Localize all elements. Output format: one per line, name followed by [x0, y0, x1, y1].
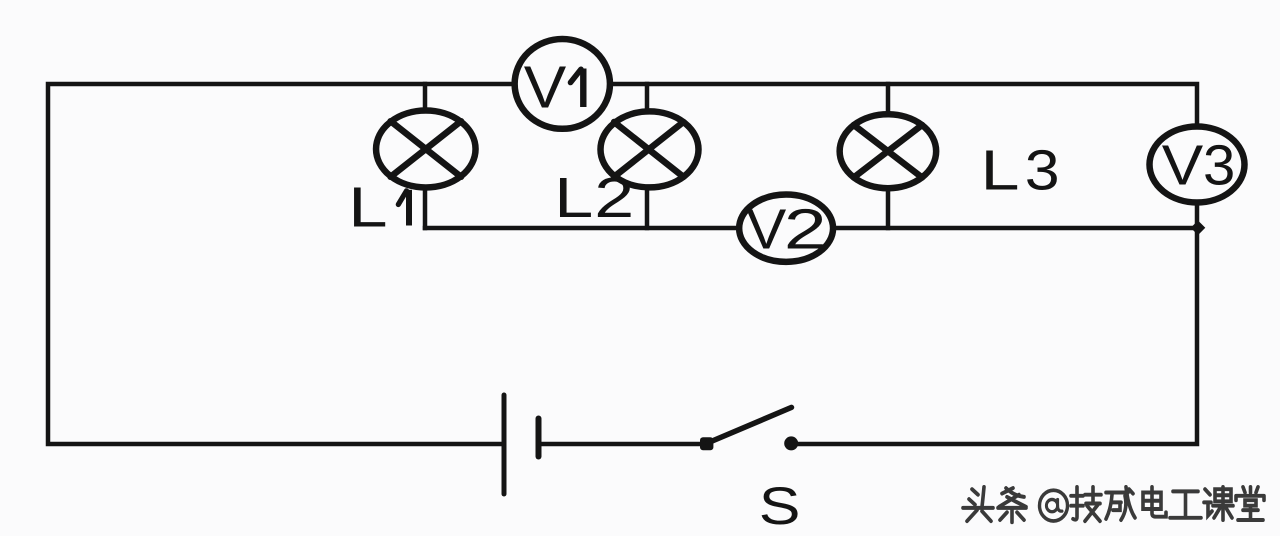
- battery long plate (+): [502, 395, 507, 494]
- label L3: [981, 138, 1060, 202]
- switch S left contact: [700, 437, 713, 450]
- wire middle bus: [425, 226, 1197, 231]
- char 头: [963, 487, 993, 521]
- char 工: [1170, 491, 1201, 517]
- voltmeter V1 body: [515, 39, 610, 129]
- char 课: [1204, 487, 1233, 520]
- lamp L1: [376, 111, 476, 188]
- char @: [1040, 490, 1068, 521]
- battery short plate (-): [536, 419, 542, 457]
- svg-text:3: 3: [1203, 134, 1235, 197]
- wire L2 branch vertical: [645, 84, 650, 228]
- voltmeter V2: [739, 195, 833, 262]
- junction node: [1191, 221, 1206, 236]
- svg-text:L: L: [554, 165, 593, 229]
- switch S right contact: [784, 436, 798, 450]
- battery B1: [504, 395, 539, 494]
- svg-text:V: V: [746, 198, 786, 261]
- lamp L3: [840, 114, 937, 188]
- label L1: [348, 175, 409, 239]
- svg-text:S: S: [759, 478, 801, 536]
- switch S: [700, 407, 798, 450]
- svg-text:L: L: [348, 175, 387, 239]
- svg-text:3: 3: [1025, 138, 1060, 202]
- char 成: [1106, 487, 1135, 520]
- voltmeter V1: [515, 39, 610, 129]
- svg-text:V: V: [1162, 133, 1204, 197]
- char 电: [1143, 487, 1166, 517]
- wire L3 branch vertical: [886, 84, 891, 228]
- wire L1 branch vertical: [423, 84, 428, 228]
- svg-text:V: V: [524, 55, 567, 121]
- switch S lever (open): [708, 407, 792, 443]
- wire battery to switch: [539, 442, 708, 447]
- svg-text:L: L: [981, 138, 1020, 202]
- voltmeter V3: [1150, 127, 1245, 203]
- svg-text:2: 2: [594, 165, 634, 229]
- wire outer loop: [48, 84, 1197, 444]
- char 条: [998, 488, 1026, 522]
- lamp L2: [601, 111, 699, 187]
- char 堂: [1236, 487, 1264, 520]
- svg-text:2: 2: [784, 198, 827, 261]
- label L2: [554, 165, 634, 229]
- watermark 头条@技成电工课堂: [963, 487, 1264, 522]
- char 技: [1071, 487, 1101, 521]
